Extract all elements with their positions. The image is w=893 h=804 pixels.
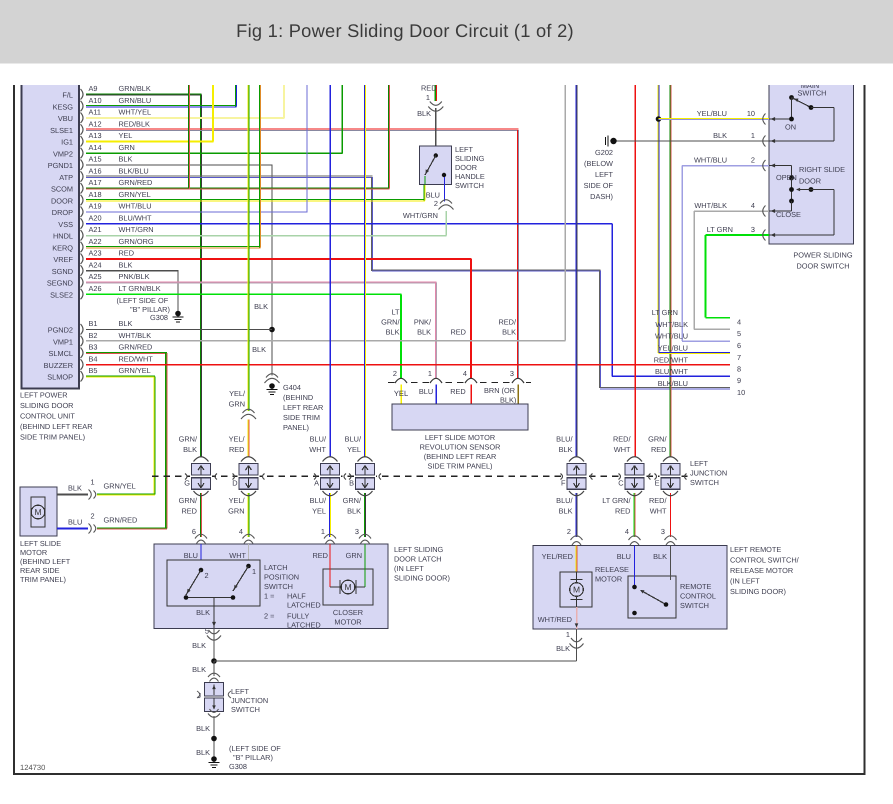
svg-text:BRN (OR: BRN (OR xyxy=(484,386,515,395)
svg-text:RED/WHT: RED/WHT xyxy=(119,354,154,363)
open contact xyxy=(791,166,793,179)
svg-text:A: A xyxy=(314,479,319,488)
junction dot ground bus xyxy=(211,658,217,664)
svg-text:WHT/BLK: WHT/BLK xyxy=(119,331,152,340)
wire A9 GRN/BLK to junction G xyxy=(86,93,202,95)
pin A23 RED (VREF) xyxy=(81,254,84,265)
pin A9 GRN/BLK (F/L) xyxy=(81,89,84,100)
pin A14 GRN (VMP2) xyxy=(81,148,84,159)
svg-text:WHT/BLU: WHT/BLU xyxy=(119,202,152,211)
pin B1 BLK (PGND2) xyxy=(81,324,84,335)
svg-text:MOTOR: MOTOR xyxy=(595,575,622,584)
svg-text:REVOLUTION SENSOR: REVOLUTION SENSOR xyxy=(420,443,501,452)
svg-text:A21: A21 xyxy=(89,225,102,234)
svg-text:BLK: BLK xyxy=(119,155,133,164)
svg-text:PNK/BLK: PNK/BLK xyxy=(119,272,150,281)
svg-text:BUZZER: BUZZER xyxy=(44,361,73,370)
svg-text:WHT: WHT xyxy=(229,551,246,560)
svg-text:1: 1 xyxy=(751,131,755,140)
sensor pin 2 xyxy=(395,379,408,386)
svg-text:DOOR SWITCH: DOOR SWITCH xyxy=(796,262,849,271)
svg-text:"B" PILLAR): "B" PILLAR) xyxy=(233,753,273,762)
frame right border xyxy=(864,85,866,775)
svg-text:SIDE TRIM PANEL): SIDE TRIM PANEL) xyxy=(20,433,85,442)
main switch internal wiring xyxy=(791,98,793,120)
svg-text:A15: A15 xyxy=(89,155,102,164)
svg-text:FULLY: FULLY xyxy=(287,612,309,621)
junction switch B xyxy=(354,475,376,479)
svg-text:WHT/GRN: WHT/GRN xyxy=(403,211,438,220)
svg-text:2: 2 xyxy=(751,156,755,165)
svg-text:SIDE TRIM PANEL): SIDE TRIM PANEL) xyxy=(427,462,492,471)
wire GRN/BLK below junction B to latch pin 3 xyxy=(363,493,365,537)
svg-text:G: G xyxy=(184,479,190,488)
release motor wires xyxy=(575,546,577,573)
svg-text:RED: RED xyxy=(181,507,197,516)
wire A17 GRN/RED up off-page xyxy=(86,187,390,189)
svg-text:JUNCTION: JUNCTION xyxy=(690,469,727,478)
wire A12 RED/BLK to revolution sensor pin 3 xyxy=(86,128,519,130)
svg-text:Fig 1: Power Sliding Door Circ: Fig 1: Power Sliding Door Circuit (1 of … xyxy=(236,20,574,41)
svg-text:LT GRN/: LT GRN/ xyxy=(602,496,631,505)
wire BLU/YEL from off-page to junction B xyxy=(363,85,365,457)
svg-text:LATCH: LATCH xyxy=(264,563,288,572)
svg-text:2: 2 xyxy=(91,512,95,521)
svg-text:RED: RED xyxy=(615,507,631,516)
wire YEL/GRN from off-page to junction D xyxy=(247,85,249,411)
svg-text:POSITION: POSITION xyxy=(264,573,299,582)
svg-text:VMP1: VMP1 xyxy=(53,337,73,346)
svg-text:BLU/WHT: BLU/WHT xyxy=(119,213,153,222)
svg-text:PNK/: PNK/ xyxy=(414,318,432,327)
svg-text:SLIDING: SLIDING xyxy=(455,154,485,163)
svg-text:(IN LEFT: (IN LEFT xyxy=(394,564,424,573)
wire A21 WHT/GRN to handle switch connector xyxy=(86,235,447,237)
svg-text:E: E xyxy=(655,479,660,488)
svg-text:GRN/RED: GRN/RED xyxy=(104,516,138,525)
svg-text:HNDL: HNDL xyxy=(53,232,73,241)
svg-text:A20: A20 xyxy=(89,213,102,222)
wire YEL/GRN below junction D to latch pin 4 xyxy=(247,493,249,537)
svg-text:F: F xyxy=(561,479,566,488)
svg-text:1: 1 xyxy=(426,93,430,102)
svg-text:VMP2: VMP2 xyxy=(53,149,73,158)
pin A16 BLK/BLU (ATP) xyxy=(81,171,84,182)
wire BLU/WHT from off-page to junction A xyxy=(329,85,331,457)
wire A11 WHT/YEL up off-page xyxy=(86,117,285,119)
svg-text:A13: A13 xyxy=(89,131,102,140)
wire GRN/RED below junction G to latch pin 6 xyxy=(199,493,201,537)
svg-text:VBU: VBU xyxy=(58,114,73,123)
svg-text:A9: A9 xyxy=(89,84,98,93)
svg-text:5: 5 xyxy=(737,329,741,338)
svg-text:GRN/RED: GRN/RED xyxy=(119,178,153,187)
svg-text:DOOR: DOOR xyxy=(799,177,821,186)
connector to G404 xyxy=(266,374,278,378)
pin 10 YEL/BLU xyxy=(659,117,770,119)
svg-text:DOOR: DOOR xyxy=(455,163,477,172)
svg-text:IG1: IG1 xyxy=(61,138,73,147)
svg-text:A18: A18 xyxy=(89,190,102,199)
selector contacts xyxy=(791,178,793,201)
wire RED handle switch pigtail (clipped top) xyxy=(434,85,436,101)
svg-text:(LEFT SIDE OF: (LEFT SIDE OF xyxy=(229,744,281,753)
svg-text:B3: B3 xyxy=(89,343,98,352)
svg-text:CLOSE: CLOSE xyxy=(776,210,801,219)
svg-text:WHT/GRN: WHT/GRN xyxy=(119,225,154,234)
sensor pin 1 xyxy=(430,379,443,386)
svg-text:1: 1 xyxy=(321,527,325,536)
sensor pin 3 xyxy=(512,379,525,386)
connector block: left power sliding door control unit xyxy=(22,70,80,389)
svg-text:M: M xyxy=(573,585,580,595)
svg-text:BLU/: BLU/ xyxy=(345,435,362,444)
svg-text:RED: RED xyxy=(450,328,466,337)
svg-text:GRN/: GRN/ xyxy=(179,435,198,444)
svg-text:SEGND: SEGND xyxy=(47,279,73,288)
svg-text:KESG: KESG xyxy=(53,102,74,111)
remote control switch sub-box xyxy=(628,576,676,618)
latch pin numbers and arcs xyxy=(195,534,207,538)
svg-text:RIGHT SLIDE: RIGHT SLIDE xyxy=(799,165,845,174)
motor symbol xyxy=(31,497,45,527)
wire RED/WHT from off-page to junction C xyxy=(634,85,636,457)
pin A13 YEL (IG1) xyxy=(81,136,84,147)
svg-text:RED: RED xyxy=(651,445,667,454)
svg-text:SLMCL: SLMCL xyxy=(49,349,74,358)
junction switch F xyxy=(566,475,588,479)
svg-text:BLK: BLK xyxy=(559,445,573,454)
pin 2 WHT/BLU to exit 6 xyxy=(682,165,769,167)
svg-text:LEFT: LEFT xyxy=(595,170,613,179)
svg-text:GRN/YEL: GRN/YEL xyxy=(104,482,136,491)
svg-text:GRN/BLU: GRN/BLU xyxy=(119,96,152,105)
left sliding door latch box xyxy=(154,544,388,629)
pin A11 WHT/YEL (VBU) xyxy=(81,113,84,124)
svg-text:BLU/: BLU/ xyxy=(556,435,573,444)
svg-text:HANDLE: HANDLE xyxy=(455,172,485,181)
svg-text:BLK): BLK) xyxy=(500,396,516,405)
svg-text:BLK: BLK xyxy=(386,328,400,337)
frame left border xyxy=(13,85,15,775)
wire BLK to handle switch xyxy=(435,108,437,146)
svg-text:YEL: YEL xyxy=(347,445,361,454)
svg-text:4: 4 xyxy=(751,201,755,210)
svg-text:3: 3 xyxy=(355,527,359,536)
svg-text:7: 7 xyxy=(737,353,741,362)
svg-text:A10: A10 xyxy=(89,96,102,105)
svg-text:A16: A16 xyxy=(89,166,102,175)
svg-text:BLU/: BLU/ xyxy=(310,496,327,505)
handle switch lever xyxy=(434,153,438,157)
svg-text:BLK: BLK xyxy=(559,507,573,516)
svg-text:A25: A25 xyxy=(89,272,102,281)
left slide motor box xyxy=(20,487,57,536)
svg-text:RED/BLK: RED/BLK xyxy=(119,119,151,128)
svg-text:ATP: ATP xyxy=(59,173,73,182)
svg-text:BLU: BLU xyxy=(617,552,631,561)
svg-text:RED: RED xyxy=(229,445,245,454)
svg-text:SWITCH: SWITCH xyxy=(690,478,719,487)
svg-text:WHT: WHT xyxy=(650,507,667,516)
pin B4 RED/WHT (BUZZER) xyxy=(81,359,84,370)
svg-text:9: 9 xyxy=(737,376,741,385)
svg-text:BLK: BLK xyxy=(196,748,210,757)
svg-text:WHT/BLU: WHT/BLU xyxy=(655,332,688,341)
svg-text:2: 2 xyxy=(567,527,571,536)
latch common wire to pin 5 xyxy=(213,598,215,629)
svg-text:124730: 124730 xyxy=(20,763,45,772)
svg-text:1: 1 xyxy=(428,369,432,378)
svg-text:BLK: BLK xyxy=(68,484,82,493)
svg-text:POWER SLIDING: POWER SLIDING xyxy=(793,251,852,260)
svg-text:PGND1: PGND1 xyxy=(48,161,73,170)
svg-text:RELEASE MOTOR: RELEASE MOTOR xyxy=(730,566,793,575)
svg-text:LATCHED: LATCHED xyxy=(287,601,321,610)
title bar xyxy=(0,0,893,64)
wire LT GRN/RED below junction C to remote box pin 4 xyxy=(633,493,635,537)
close contact xyxy=(789,199,794,204)
closer motor wires xyxy=(329,544,331,587)
wire A10 GRN/BLU up off-page xyxy=(86,105,237,107)
wire A14 GRN up off-page xyxy=(86,152,343,154)
pin A22 GRN/ORG (KERQ) xyxy=(81,242,84,253)
wire A26 LT GRN/BLK to revolution sensor pin 2 xyxy=(86,293,402,295)
svg-text:J: J xyxy=(197,691,201,700)
svg-text:SIDE TRIM: SIDE TRIM xyxy=(283,413,320,422)
svg-text:BLU: BLU xyxy=(184,551,198,560)
pin A10 GRN/BLU (KESG) xyxy=(81,101,84,112)
svg-text:1: 1 xyxy=(91,478,95,487)
pin A24 BLK (SGND) xyxy=(81,265,84,276)
svg-text:LT GRN: LT GRN xyxy=(652,308,678,317)
svg-text:(BEHIND LEFT: (BEHIND LEFT xyxy=(20,557,71,566)
svg-text:GRN: GRN xyxy=(228,507,244,516)
svg-text:DROP: DROP xyxy=(52,208,73,217)
svg-text:GRN/: GRN/ xyxy=(381,318,400,327)
wire BLU/BLK below junction F to remote box pin 2 xyxy=(575,493,577,537)
svg-text:LATCHED: LATCHED xyxy=(287,621,321,630)
svg-text:LEFT POWER: LEFT POWER xyxy=(20,391,68,400)
svg-text:YEL/BLU: YEL/BLU xyxy=(697,109,727,118)
svg-text:OPEN: OPEN xyxy=(776,173,797,182)
svg-text:BLK: BLK xyxy=(196,724,210,733)
svg-text:HALF: HALF xyxy=(287,592,306,601)
svg-text:WHT: WHT xyxy=(614,445,631,454)
svg-text:GRN/RED: GRN/RED xyxy=(119,343,153,352)
pin 4 WHT/BLK to exit 5 xyxy=(694,210,769,212)
svg-text:F/L: F/L xyxy=(62,91,73,100)
svg-text:DOOR: DOOR xyxy=(51,196,73,205)
connector 2 xyxy=(440,200,452,204)
svg-text:2: 2 xyxy=(205,571,209,580)
svg-text:A19: A19 xyxy=(89,202,102,211)
svg-text:GRN: GRN xyxy=(119,143,135,152)
main switch lever xyxy=(789,95,794,100)
svg-text:BLK: BLK xyxy=(417,109,431,118)
svg-text:10: 10 xyxy=(737,388,745,397)
svg-text:M: M xyxy=(344,582,351,592)
svg-text:RED: RED xyxy=(450,387,466,396)
svg-text:B4: B4 xyxy=(89,354,98,363)
closer motor sub-box xyxy=(323,569,373,605)
svg-text:D: D xyxy=(232,479,237,488)
svg-text:RED/: RED/ xyxy=(613,435,632,444)
svg-text:G202: G202 xyxy=(595,148,613,157)
svg-text:8: 8 xyxy=(737,365,741,374)
svg-text:BLU: BLU xyxy=(419,387,433,396)
svg-text:KERQ: KERQ xyxy=(52,243,73,252)
svg-text:YEL/: YEL/ xyxy=(229,435,246,444)
svg-text:SLMOP: SLMOP xyxy=(47,373,73,382)
svg-text:YEL/: YEL/ xyxy=(229,496,246,505)
junction switch G xyxy=(190,475,212,479)
wire A19 WHT/BLU up off-page xyxy=(86,211,308,213)
svg-text:4: 4 xyxy=(239,527,243,536)
left sliding door handle switch box xyxy=(420,146,452,185)
svg-text:BLU/: BLU/ xyxy=(556,496,573,505)
svg-text:BLK: BLK xyxy=(417,328,431,337)
svg-text:SWITCH: SWITCH xyxy=(264,582,293,591)
pin A18 GRN/YEL (DOOR) xyxy=(81,195,84,206)
svg-text:A14: A14 xyxy=(89,143,102,152)
svg-text:A12: A12 xyxy=(89,119,102,128)
wire A16 BLK/BLU staircase to exit 10 xyxy=(86,175,373,177)
svg-text:RELEASE: RELEASE xyxy=(595,565,629,574)
svg-text:WHT/BLK: WHT/BLK xyxy=(655,320,688,329)
ground G404 xyxy=(269,383,275,389)
svg-text:LT GRN/BLK: LT GRN/BLK xyxy=(119,284,161,293)
pin B5 GRN/YEL (SLMOP) xyxy=(81,371,84,382)
svg-text:MOTOR: MOTOR xyxy=(20,548,47,557)
wire A13 YEL up off-page xyxy=(86,141,214,143)
svg-text:BLU: BLU xyxy=(68,518,82,527)
ground G202 xyxy=(605,137,607,145)
wire B3 GRN/RED to left slide motor pin 2 xyxy=(86,351,167,353)
sensor pin 4 xyxy=(465,379,478,386)
svg-text:LEFT SLIDE: LEFT SLIDE xyxy=(20,539,61,548)
svg-text:G308: G308 xyxy=(229,762,247,771)
svg-text:REMOTE: REMOTE xyxy=(680,582,712,591)
svg-text:B1: B1 xyxy=(89,319,98,328)
svg-text:10: 10 xyxy=(747,109,755,118)
svg-text:WHT: WHT xyxy=(309,445,326,454)
release motor sub-box xyxy=(560,572,592,607)
wire BLU/YEL below junction A to latch pin 1 xyxy=(328,493,330,537)
pin 1 BLK from ground G202 xyxy=(615,140,769,142)
sensor connector dashed line xyxy=(388,382,531,384)
svg-text:SLIDING DOOR): SLIDING DOOR) xyxy=(394,574,450,583)
svg-text:BLK/BLU: BLK/BLU xyxy=(658,379,688,388)
svg-text:SCOM: SCOM xyxy=(51,185,73,194)
svg-text:GRN/YEL: GRN/YEL xyxy=(119,366,151,375)
svg-text:VSS: VSS xyxy=(58,220,73,229)
svg-text:SLIDING DOOR): SLIDING DOOR) xyxy=(730,587,786,596)
junction switch E xyxy=(660,475,682,479)
svg-text:CONTROL: CONTROL xyxy=(680,592,716,601)
svg-text:BLK: BLK xyxy=(119,260,133,269)
svg-text:YEL: YEL xyxy=(119,131,133,140)
ground G308 lower xyxy=(211,756,217,762)
svg-text:A17: A17 xyxy=(89,178,102,187)
ground bus horizontal wire xyxy=(214,660,577,662)
clip band xyxy=(0,64,893,86)
svg-text:(BEHIND LEFT REAR: (BEHIND LEFT REAR xyxy=(424,452,497,461)
svg-text:LT: LT xyxy=(391,308,400,317)
svg-text:CLOSER: CLOSER xyxy=(333,608,363,617)
svg-text:A23: A23 xyxy=(89,249,102,258)
wire BLK junction J to ground G308 xyxy=(213,716,215,757)
pin B3 GRN/RED (SLMCL) xyxy=(81,348,84,359)
svg-text:4: 4 xyxy=(625,527,629,536)
svg-text:G404: G404 xyxy=(283,383,301,392)
svg-text:BLK: BLK xyxy=(252,345,266,354)
svg-text:A22: A22 xyxy=(89,237,102,246)
svg-text:LT GRN: LT GRN xyxy=(707,225,733,234)
pin A25 PNK/BLK (SEGND) xyxy=(81,277,84,288)
svg-text:SWITCH: SWITCH xyxy=(798,89,827,98)
wire BLK to junction switch J xyxy=(213,661,215,676)
svg-text:2: 2 xyxy=(434,199,438,208)
latch contacts xyxy=(199,568,204,573)
svg-text:LEFT SLIDING: LEFT SLIDING xyxy=(394,545,444,554)
svg-text:RED: RED xyxy=(119,249,135,258)
svg-text:SWITCH: SWITCH xyxy=(680,601,709,610)
remote box pin numbers and arcs xyxy=(571,536,583,540)
svg-text:YEL/BLU: YEL/BLU xyxy=(658,344,688,353)
svg-text:2 =: 2 = xyxy=(264,612,274,621)
svg-text:BLU/WHT: BLU/WHT xyxy=(655,367,689,376)
motor pin 2 BLU xyxy=(57,528,88,530)
svg-text:(IN LEFT: (IN LEFT xyxy=(730,577,760,586)
svg-text:2: 2 xyxy=(393,369,397,378)
frame bottom border xyxy=(13,773,866,775)
latch position switch sub-box xyxy=(167,560,260,606)
svg-text:A11: A11 xyxy=(89,108,102,117)
svg-text:3: 3 xyxy=(661,527,665,536)
svg-text:RED: RED xyxy=(312,551,328,560)
svg-text:BLK: BLK xyxy=(556,644,570,653)
left remote control switch / release motor box xyxy=(533,546,727,630)
svg-text:(BELOW: (BELOW xyxy=(584,159,613,168)
wire YEL/BLU from off-page to exit 7 xyxy=(657,85,659,353)
svg-text:BLK: BLK xyxy=(192,665,206,674)
handle switch lever wire stub xyxy=(424,176,426,185)
wire BLU below handle switch xyxy=(444,177,446,202)
svg-text:LEFT REMOTE: LEFT REMOTE xyxy=(730,545,781,554)
pin A15 BLK (PGND1) xyxy=(81,160,84,171)
svg-text:SWITCH: SWITCH xyxy=(455,181,484,190)
wire B1 BLK to junction dot xyxy=(86,329,272,331)
svg-text:GRN/: GRN/ xyxy=(179,496,198,505)
svg-text:YEL/: YEL/ xyxy=(229,389,246,398)
svg-text:BLK: BLK xyxy=(713,131,727,140)
svg-text:VREF: VREF xyxy=(53,255,73,264)
wire YEL/RED to junction D xyxy=(247,420,249,458)
svg-text:REAR SIDE: REAR SIDE xyxy=(20,566,60,575)
svg-text:SLSE1: SLSE1 xyxy=(50,126,73,135)
wire B4 RED/WHT to exit 8 xyxy=(86,364,730,366)
junction dot YEL/BLU power switch pin 10 xyxy=(656,116,662,122)
svg-text:5: 5 xyxy=(205,627,209,636)
wire B5 GRN/YEL to left slide motor pin 1 xyxy=(86,375,155,377)
junction switch J xyxy=(208,673,220,677)
wire GRN/RED stub from off-page joining A17 row xyxy=(187,85,189,189)
svg-text:WHT/YEL: WHT/YEL xyxy=(119,108,152,117)
svg-text:DOOR LATCH: DOOR LATCH xyxy=(394,555,442,564)
svg-text:4: 4 xyxy=(463,369,467,378)
svg-text:BLK: BLK xyxy=(183,445,197,454)
